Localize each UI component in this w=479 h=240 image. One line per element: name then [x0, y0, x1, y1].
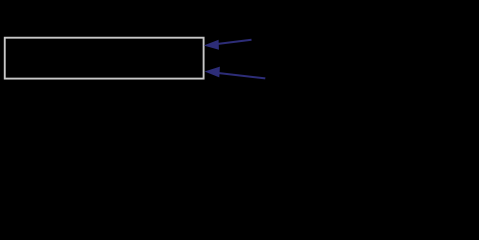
arrow 1 (upper callout arrow): [204, 40, 252, 50]
arrow 2 (lower callout arrow): [205, 67, 266, 79]
box (empty label box): [5, 38, 204, 79]
